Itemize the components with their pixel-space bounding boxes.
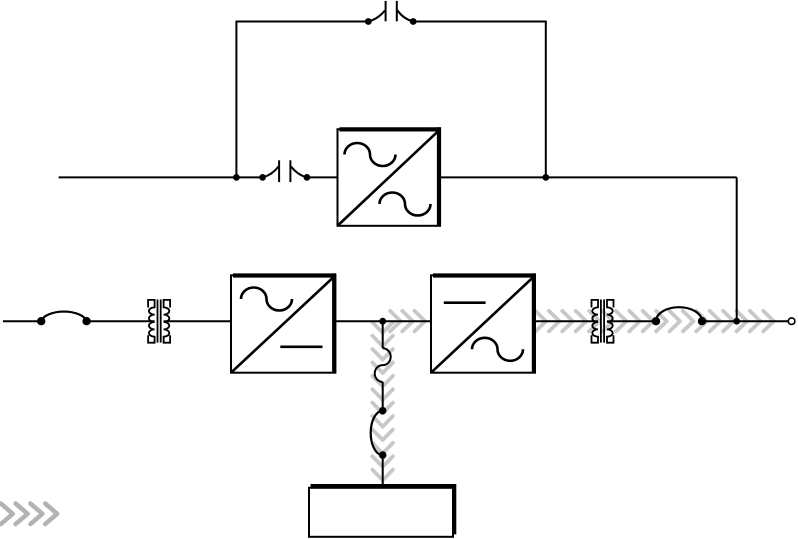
contact arc left (bypass static switch) xyxy=(368,11,385,22)
node: contact left terminal dot (mains-2 switch) xyxy=(259,174,266,181)
contact bar left (bypass static switch) xyxy=(385,1,387,21)
node: contact right terminal dot (mains-2 switch) xyxy=(304,174,311,181)
wire: mains-1 input stub xyxy=(3,320,41,322)
wire: bypass top horizontal right segment xyxy=(413,21,547,23)
contact bar right (bypass static switch) xyxy=(396,1,398,21)
terminal: load output (open circle) xyxy=(788,318,795,325)
node: DC bus junction (battery tap) xyxy=(379,318,386,325)
converter block: static bypass AC/AC box xyxy=(338,127,441,226)
transformer: output isolation transformer xyxy=(592,300,614,343)
wire: output transformer to output isolator xyxy=(607,320,656,322)
wire: bypass right vertical drop xyxy=(545,22,547,178)
wire: DC bus junction to inverter input xyxy=(383,320,432,322)
wire: output isolator to bypass junction xyxy=(702,320,737,322)
wire: battery branch vertical segment from DC junction xyxy=(382,321,384,348)
wire: junction to load terminal xyxy=(737,320,789,322)
power flow chevrons: inverter output to load terminal xyxy=(536,311,774,332)
wire: right vertical drop to output line xyxy=(736,177,738,321)
converter block: inverter DC/AC box xyxy=(431,273,536,373)
wire: bypass left vertical riser xyxy=(235,22,237,178)
node: junction of bypass drop on output feed xyxy=(542,174,549,181)
wire: rectifier DC output to junction xyxy=(335,320,383,322)
wire: bypass converter output segment xyxy=(440,176,737,178)
node: junction of bypass drop and output line xyxy=(733,318,740,325)
power flow chevrons: junction down to battery xyxy=(372,322,393,480)
contact arc left (mains-2 switch) xyxy=(263,167,279,178)
breaker arc (input isolator) xyxy=(41,312,86,322)
node: output isolator right dot xyxy=(698,317,706,325)
wire: squiggle to fuse dot xyxy=(382,382,384,411)
wire: contact to bypass converter input xyxy=(307,176,338,178)
power flow chevrons: rectifier junction to inverter input xyxy=(390,311,425,332)
node: junction of bypass riser and mains-2 line xyxy=(233,174,240,181)
breaker arc (output isolator) xyxy=(656,307,702,321)
node: bypass contact right terminal dot xyxy=(410,18,417,25)
converter block: rectifier AC/DC box xyxy=(231,273,336,373)
node: bypass contact left terminal dot xyxy=(365,18,372,25)
breaker arc (battery isolator, bulging left) xyxy=(371,411,383,455)
contact arc right (bypass static switch) xyxy=(398,11,414,22)
flexible link squiggle (battery cable) xyxy=(375,348,391,382)
node: battery breaker lower dot xyxy=(379,451,387,459)
node: input isolator right dot xyxy=(82,317,90,325)
logo chevrons bottom-left xyxy=(1,504,57,525)
node: input isolator left dot xyxy=(37,317,45,325)
wire: input transformer to rectifier xyxy=(164,320,232,322)
wire: bypass top horizontal left segment xyxy=(236,21,369,23)
wire: mains-2 line to maintenance contact xyxy=(236,176,262,178)
contact bar left (mains-2 switch) xyxy=(278,160,280,182)
contact bar right (mains-2 switch) xyxy=(289,160,291,182)
wire: isolator to input transformer xyxy=(87,320,155,322)
node: battery breaker upper dot xyxy=(379,407,387,415)
wire: breaker to battery box xyxy=(382,455,384,486)
wire: mains-2 input line xyxy=(59,176,237,178)
battery block (rectangle) xyxy=(309,484,456,537)
transformer: input isolation transformer xyxy=(148,300,170,343)
contact arc right (mains-2 switch) xyxy=(291,167,307,178)
wire: inverter output to output transformer xyxy=(535,320,598,322)
node: output isolator left dot xyxy=(652,317,660,325)
